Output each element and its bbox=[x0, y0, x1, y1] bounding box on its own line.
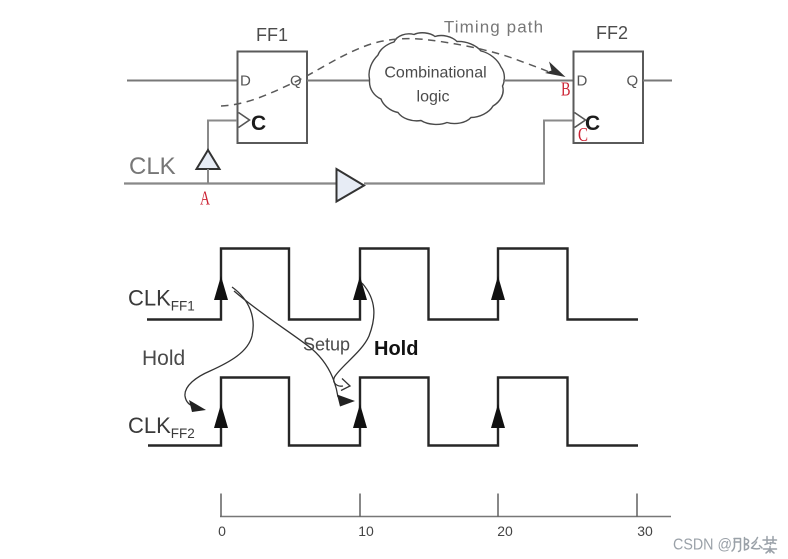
timing path arrowhead bbox=[545, 62, 566, 78]
wire: clock riser to FF2 C bbox=[544, 121, 573, 185]
CLK FF1 rising edge arrow 2 bbox=[353, 276, 367, 300]
svg-text:Hold: Hold bbox=[142, 347, 185, 370]
CLK wire right segment bbox=[364, 182, 545, 184]
CLK FF2 rising edge arrow 3 bbox=[491, 404, 505, 428]
svg-text:D: D bbox=[577, 73, 588, 90]
svg-text:FF2: FF2 bbox=[596, 23, 628, 43]
svg-text:20: 20 bbox=[497, 523, 513, 539]
timing path dashed curve bbox=[221, 39, 549, 106]
svg-text:CLKFF1: CLKFF1 bbox=[128, 286, 195, 314]
svg-text:30: 30 bbox=[637, 523, 653, 539]
wire: clock branch to FF1 C bbox=[208, 121, 237, 152]
svg-text:C: C bbox=[578, 124, 588, 146]
svg-text:Setup: Setup bbox=[303, 335, 350, 355]
svg-text:Timing path: Timing path bbox=[444, 18, 544, 37]
time axis line bbox=[220, 516, 671, 518]
setup arrowhead bbox=[337, 395, 355, 407]
wire: combinational logic to FF2 D bbox=[503, 80, 573, 82]
svg-text:C: C bbox=[251, 112, 266, 135]
FF2 clock edge chevron bbox=[575, 113, 586, 128]
hold arrow right open arrowhead bbox=[341, 379, 350, 391]
setup arrow curve bbox=[234, 291, 338, 397]
clock buffer triangle bbox=[337, 169, 365, 202]
svg-text:Combinational: Combinational bbox=[384, 65, 486, 82]
hold arrow right curve bbox=[334, 283, 374, 386]
wire: input to FF1 D bbox=[127, 80, 237, 82]
watermark CJK glyphs bbox=[732, 537, 777, 554]
svg-text:D: D bbox=[240, 73, 251, 90]
svg-text:FF1: FF1 bbox=[256, 25, 288, 45]
flip-flop U2 FF2 bbox=[574, 52, 644, 144]
CLK FF2 rising edge arrow 2 bbox=[353, 404, 367, 428]
CLK FF2 rising edge arrow 1 bbox=[214, 404, 228, 428]
CLK FF2 waveform bbox=[148, 378, 638, 446]
wire: triangle to CLK line bbox=[207, 169, 209, 184]
wire: FF1 Q to combinational logic bbox=[307, 80, 370, 82]
CLK FF1 rising edge arrow 1 bbox=[214, 276, 228, 300]
svg-text:A: A bbox=[200, 188, 210, 210]
axis tick 0 bbox=[220, 494, 222, 517]
CLK FF1 rising edge arrow 3 bbox=[491, 276, 505, 300]
svg-text:10: 10 bbox=[358, 523, 374, 539]
combinational logic cloud bbox=[369, 33, 504, 125]
svg-text:CLKFF2: CLKFF2 bbox=[128, 413, 195, 441]
svg-text:CSDN @: CSDN @ bbox=[673, 537, 732, 554]
svg-text:Hold: Hold bbox=[374, 338, 418, 360]
hold arrow left arrowhead bbox=[189, 400, 206, 412]
axis tick 30 bbox=[636, 494, 638, 517]
CLK wire left segment bbox=[124, 182, 337, 184]
svg-text:B: B bbox=[561, 79, 571, 101]
svg-text:Q: Q bbox=[627, 73, 639, 90]
svg-text:0: 0 bbox=[218, 523, 226, 539]
wire: FF2 Q output bbox=[643, 80, 672, 82]
hold arrow left curve bbox=[185, 287, 253, 407]
clock source triangle at node A bbox=[197, 150, 220, 169]
svg-text:CLK: CLK bbox=[129, 153, 176, 180]
svg-text:logic: logic bbox=[417, 89, 450, 106]
flip-flop U1 FF1 bbox=[238, 52, 308, 144]
axis tick 20 bbox=[497, 494, 499, 517]
CLK FF1 waveform bbox=[147, 249, 638, 320]
FF1 clock edge chevron bbox=[239, 113, 250, 128]
axis tick 10 bbox=[359, 494, 361, 517]
